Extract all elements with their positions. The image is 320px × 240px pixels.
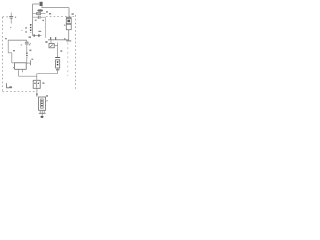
relay K1 box [33,80,40,88]
junction foot bar [66,40,71,42]
wire bottom link [19,75,37,77]
label 16 [29,36,31,38]
label 23 [46,95,48,97]
linkage dashed line [67,43,69,77]
label 17 [13,50,15,51]
ground stem [41,113,43,115]
capacitor C2 horizontal [33,16,38,18]
label 22 [31,59,33,60]
label tick left of T1 [64,25,65,26]
label 13 small [64,38,66,39]
stub contact A [50,37,52,40]
contact stub wire [26,62,30,64]
node dot near C1 [15,17,16,18]
wire top input [33,3,40,5]
battery B1 bottom plate [56,69,59,71]
wire battery column upper [57,43,59,58]
label 11 leader [38,31,41,32]
wire x45.5 vertical [45,17,47,38]
cell unit G1 inner sleeve [41,99,44,108]
ground blob [41,116,44,118]
label 15 [5,38,7,39]
wire M1 top link [12,62,15,64]
label 19 [45,41,47,43]
label 11 [46,11,48,12]
module M1 box [15,63,27,70]
jack J1 input connector [40,2,43,6]
module M1 pin 2 [22,69,24,72]
label 21 [42,82,44,84]
stub contact B [55,37,57,40]
wire jog [8,52,12,54]
battery B1 case [56,60,60,68]
wire mid rail [48,39,69,41]
wire jack to top rail [41,6,43,8]
cell unit G1 dots [41,100,43,102]
wire battery down [57,68,59,74]
label 20 [60,50,62,52]
label 14 [72,13,74,15]
transistor Q1 box [49,44,54,48]
resistor R1 horizontal [33,13,46,15]
label 18 [29,50,31,52]
contact cross tick [29,60,31,65]
label 12 [49,13,51,15]
enclosure dashed border top-right segment [46,16,76,18]
stray dot [21,30,22,31]
enclosure dashed border bottom edge [3,91,35,93]
antenna capacitor C1 top-left [9,13,13,29]
label 10 [37,9,43,12]
wire left rail [8,39,27,41]
wire right drop [68,8,70,18]
enclosure dashed border top-left segment [3,16,10,18]
diode D1 detector row [33,34,42,37]
wire return rail [37,73,58,75]
wire into Q1 [50,40,52,44]
wire feed M1 vertical [11,53,13,63]
wire Q1 to battery column [54,45,57,47]
label dot near M1 [13,67,14,68]
coil L1 winding marks [30,24,32,33]
terminal comb pins [39,110,41,113]
resistor R2 vertical [26,48,28,63]
label 13 column dots [25,27,26,29]
transistor Q1 inner mark [50,45,53,47]
earphone T1 top bar [66,16,72,18]
module M1 pin 1 [18,69,20,76]
wire left drop [7,40,9,53]
variable capacitor C3 [25,40,31,48]
enclosure dashed border right edge [75,15,77,90]
battery B1 top plate [55,57,60,59]
earphone T1 core mark [67,20,70,23]
terminal bar [39,112,46,114]
wire drop to relay [36,74,38,81]
earphone T1 lower coil box [66,24,71,29]
battery B1 terminal dots [57,61,59,63]
wire top rail [42,7,70,9]
relay K1 inner line [36,81,38,88]
relay K1 contact dots [34,83,35,84]
coil L1 vertical wire [32,4,34,36]
label small right [42,20,44,21]
wire earphone to mid rail [68,30,70,40]
label near C3 [21,44,23,45]
figure label Fig [7,83,13,88]
label small left [35,20,37,21]
arrowhead [36,94,38,97]
cell unit G1 outer box [39,97,46,110]
label 24 pointer [46,100,48,102]
enclosure dashed border left edge [2,17,4,91]
earphone T1 upper coil box [66,18,71,23]
wire arrow feed to cell unit [36,88,38,97]
